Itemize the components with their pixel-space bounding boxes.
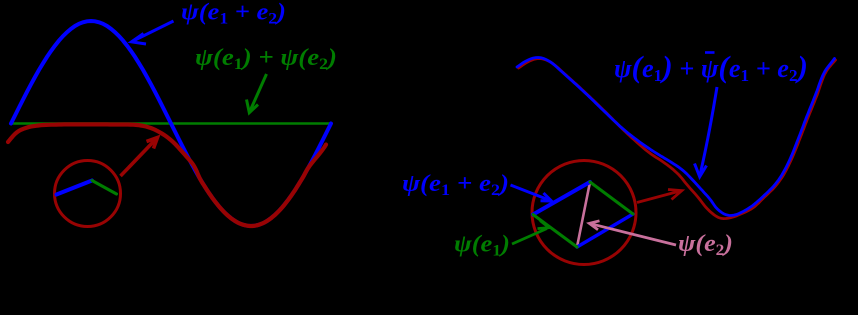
right pink arrow from psi(e2) label into circle	[589, 221, 676, 245]
right plot red curve	[519, 59, 836, 219]
left circle blue segment	[57, 181, 93, 195]
svg-text:ψ(e1 + e2): ψ(e1 + e2)	[181, 0, 286, 28]
left circle green segment	[92, 181, 117, 195]
left plot green line psi(e1)+psi(e2)	[11, 122, 330, 125]
right dark red arrow from circle to red curve	[637, 190, 682, 203]
parallelogram blue edge bottom-right	[577, 214, 633, 247]
right blue arrow from top label down to trough	[695, 87, 718, 177]
right magnifier circle	[532, 161, 636, 265]
parallelogram pink diagonal	[577, 182, 590, 247]
svg-text:ψ(e1) + ψ(e1 + e2): ψ(e1) + ψ(e1 + e2)	[614, 49, 808, 85]
right green arrow from psi(e1) label into circle	[512, 221, 549, 245]
overline bar on second psi	[705, 51, 715, 54]
svg-text:ψ(e2): ψ(e2)	[678, 231, 733, 259]
left dark red arrow from circle to curve bend	[121, 138, 158, 177]
left green arrow from label to green line	[247, 74, 267, 113]
right blue arrow from psi(e1+e2) label into circle	[511, 185, 552, 201]
svg-text:ψ(e1): ψ(e1)	[454, 232, 510, 260]
left blue arrow from label to curve	[132, 21, 174, 44]
svg-text:ψ(e1) + ψ(e2): ψ(e1) + ψ(e2)	[195, 45, 337, 73]
parallelogram green edge top-right	[590, 182, 633, 214]
left plot blue curve psi(e1+e2)	[11, 21, 331, 226]
parallelogram blue edge left-top psi(e1+e2)	[533, 182, 590, 215]
left magnifier circle	[55, 161, 121, 227]
parallelogram green edge left-bottom psi(e1)	[533, 215, 577, 248]
right plot blue curve	[517, 58, 835, 216]
svg-text:ψ(e1 + e2): ψ(e1 + e2)	[402, 171, 509, 199]
left plot dark red curve	[8, 124, 326, 226]
